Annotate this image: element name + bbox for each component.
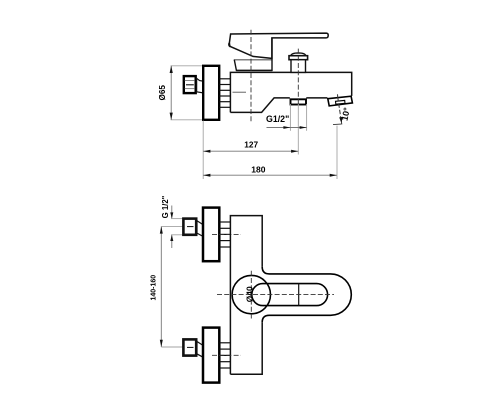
- threaded stub lower: [220, 343, 231, 368]
- 10° angle tick: [337, 94, 339, 97]
- 10° arrow: [339, 117, 342, 124]
- hex nut (side view, top): [184, 76, 196, 93]
- G1/2 extension lines: [171, 218, 183, 220]
- wall flange upper (front view): [203, 208, 219, 262]
- shower outlet threaded stub (dark): [291, 99, 307, 104]
- 127 arrows: [203, 150, 210, 153]
- dimension Ø65 line: [170, 66, 172, 120]
- nut facet lines: [185, 80, 196, 82]
- eccentric cone upper: [197, 220, 203, 236]
- aerator inner outlet: [336, 100, 346, 104]
- centreline diverter (dashed): [297, 49, 299, 104]
- dimension Ø65 arrow top: [170, 66, 173, 73]
- hex nut lower (front view): [183, 339, 196, 355]
- svg-text:180: 180: [251, 164, 265, 174]
- svg-text:127: 127: [244, 139, 258, 149]
- handle front corner: [229, 43, 230, 47]
- svg-text:G 1/2": G 1/2": [161, 195, 170, 218]
- 180 arrows: [203, 174, 210, 177]
- wall flange lower (front view): [203, 328, 219, 383]
- svg-text:G1/2": G1/2": [266, 114, 289, 124]
- escutcheon circle Ø40: [232, 275, 270, 313]
- 127 extension left: [202, 121, 204, 179]
- cartridge collar: [234, 38, 272, 70]
- eccentric cone: [196, 78, 203, 93]
- G1/2 dim line upper segment: [171, 206, 173, 219]
- eccentric cone lower: [197, 341, 203, 357]
- 140-160 dimension line: [160, 226, 162, 347]
- centreline cartridge (dashed): [250, 30, 252, 123]
- nut right face: [196, 78, 198, 92]
- 10° angle line: [338, 97, 342, 125]
- lever handle (side view): [229, 33, 328, 58]
- body (front view): [230, 216, 262, 375]
- dimension Ø65 arrow bottom: [170, 113, 173, 120]
- dimension Ø65 extension line top: [171, 65, 204, 67]
- wall flange (side view, top): [203, 66, 219, 120]
- G1/2 arrows: [283, 126, 290, 129]
- lever inner edge line: [298, 284, 300, 306]
- 180 dimension line: [203, 174, 337, 176]
- dimension Ø65 extension line bottom: [171, 119, 204, 121]
- lever stadium (front view): [252, 284, 328, 306]
- centreline vertical (dashed): [250, 271, 252, 319]
- 140-160 extension lines: [161, 225, 183, 227]
- threaded stub lines: [219, 79, 230, 108]
- diverter knob dome: [291, 53, 306, 56]
- threaded stub upper: [220, 222, 231, 247]
- nut centre dash: [186, 84, 194, 86]
- diverter knob rim: [289, 56, 308, 60]
- handle skirt bottom: [234, 59, 272, 61]
- centreline horizontal (dashed): [217, 294, 334, 296]
- centreline extension to 127: [297, 104, 299, 155]
- G1/2 dim line lower segment: [171, 235, 173, 248]
- spout aerator (tilted 10°): [328, 96, 353, 106]
- centreline upper fitting dash: [212, 233, 241, 235]
- G1/2 extension lines: [289, 104, 291, 131]
- 127 dimension line: [203, 150, 298, 152]
- centreline lower fitting dash: [212, 354, 241, 356]
- svg-text:Ø40: Ø40: [244, 286, 254, 302]
- centreline inlet body dash: [233, 91, 247, 93]
- 180 extension right: [336, 126, 338, 179]
- hex nut upper (front view): [183, 219, 196, 235]
- svg-text:140-160: 140-160: [150, 275, 157, 301]
- mixer body (side view): [230, 72, 351, 112]
- G1/2 dimension line: [267, 127, 307, 129]
- outer lever contour: [262, 267, 351, 322]
- svg-text:Ø65: Ø65: [158, 85, 167, 101]
- diverter knob body: [291, 60, 306, 73]
